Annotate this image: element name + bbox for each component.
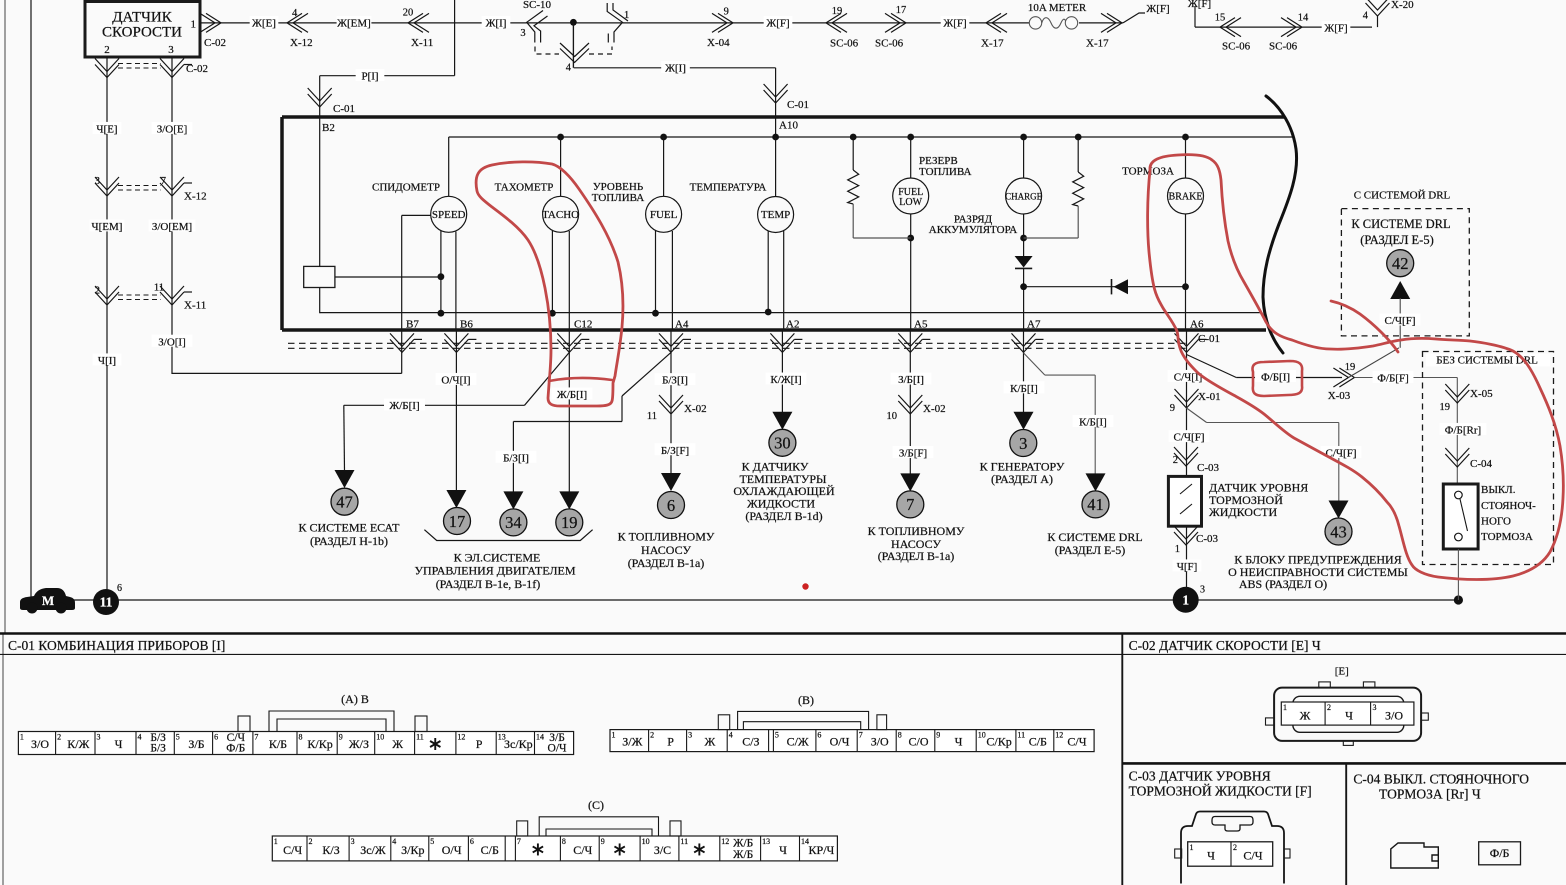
svg-text:НАСОСУ: НАСОСУ	[641, 543, 691, 557]
svg-text:СКОРОСТИ: СКОРОСТИ	[102, 25, 182, 41]
svg-text:Ж[EM]: Ж[EM]	[337, 18, 371, 30]
svg-text:11: 11	[100, 595, 113, 610]
svg-text:К/Б: К/Б	[269, 737, 287, 751]
svg-text:ТОРМОЗНОЙ ЖИДКОСТИ [F]: ТОРМОЗНОЙ ЖИДКОСТИ [F]	[1129, 784, 1312, 799]
svg-text:4: 4	[566, 63, 572, 74]
svg-text:ВЫКЛ.: ВЫКЛ.	[1481, 484, 1516, 496]
svg-text:LOW: LOW	[899, 197, 922, 208]
svg-text:2: 2	[1233, 843, 1237, 852]
svg-text:12: 12	[457, 733, 465, 742]
svg-text:Ж/Б[I]: Ж/Б[I]	[557, 389, 587, 401]
svg-text:11: 11	[154, 282, 164, 293]
svg-text:Ф/Б[I]: Ф/Б[I]	[1261, 372, 1290, 384]
svg-text:C-01: C-01	[333, 103, 355, 115]
svg-text:З/Кр: З/Кр	[401, 843, 424, 857]
svg-text:30: 30	[774, 434, 791, 453]
svg-text:К/Ж: К/Ж	[67, 737, 89, 751]
svg-text:X-11: X-11	[411, 37, 433, 49]
svg-text:19: 19	[1345, 362, 1356, 373]
svg-text:З/О[E]: З/О[E]	[157, 124, 188, 136]
svg-text:О/Ч: О/Ч	[442, 843, 462, 857]
svg-text:10: 10	[978, 731, 986, 740]
svg-text:X-17: X-17	[1086, 37, 1109, 49]
svg-text:Б/З[F]: Б/З[F]	[661, 445, 689, 457]
svg-text:X-17: X-17	[981, 37, 1004, 49]
svg-text:1: 1	[1182, 592, 1189, 607]
svg-text:ABS (РАЗДЕЛ О): ABS (РАЗДЕЛ О)	[1239, 577, 1327, 591]
svg-text:З/О[I]: З/О[I]	[158, 336, 186, 348]
svg-text:17: 17	[896, 5, 907, 16]
svg-text:15: 15	[1215, 12, 1226, 23]
svg-text:14: 14	[536, 733, 544, 742]
svg-text:Б/З[I]: Б/З[I]	[503, 452, 529, 464]
svg-text:SC-10: SC-10	[523, 0, 552, 11]
svg-text:О/Ч: О/Ч	[830, 734, 850, 748]
svg-text:10: 10	[887, 411, 898, 422]
svg-text:1: 1	[191, 19, 197, 31]
svg-text:Б/З[I]: Б/З[I]	[662, 375, 688, 387]
svg-text:Ж[F]: Ж[F]	[1188, 0, 1211, 10]
svg-text:3: 3	[168, 44, 174, 56]
svg-text:С/Б: С/Б	[1029, 734, 1047, 748]
svg-text:Б/З: Б/З	[150, 743, 166, 755]
svg-text:8: 8	[898, 731, 902, 740]
svg-text:6: 6	[214, 733, 218, 742]
svg-text:С/Ч[F]: С/Ч[F]	[1385, 315, 1416, 327]
svg-text:11: 11	[680, 837, 688, 846]
svg-text:С/Ч: С/Ч	[1067, 734, 1086, 748]
svg-text:К/Б[I]: К/Б[I]	[1079, 417, 1107, 429]
svg-text:C-01: C-01	[787, 99, 809, 111]
svg-text:С/Кр: С/Кр	[986, 734, 1011, 748]
svg-text:A10: A10	[779, 119, 798, 131]
svg-text:С/З: С/З	[742, 734, 759, 748]
svg-text:Ч: Ч	[1345, 709, 1353, 723]
svg-text:КР/Ч: КР/Ч	[809, 843, 835, 857]
svg-text:Ч[EM]: Ч[EM]	[92, 221, 123, 233]
svg-text:Зс/Кр: Зс/Кр	[504, 737, 533, 751]
svg-text:9: 9	[936, 731, 940, 740]
svg-text:X-02: X-02	[923, 403, 946, 415]
svg-text:Ж: Ж	[392, 737, 403, 751]
svg-text:FUEL: FUEL	[650, 209, 678, 221]
svg-text:1: 1	[612, 731, 616, 740]
svg-text:Ч[F]: Ч[F]	[1177, 561, 1198, 573]
svg-text:З/О: З/О	[1385, 709, 1403, 723]
svg-text:A7: A7	[1027, 319, 1041, 331]
svg-text:О/Ч: О/Ч	[548, 743, 568, 755]
svg-text:Ч[I]: Ч[I]	[98, 355, 116, 367]
svg-text:8: 8	[562, 837, 566, 846]
svg-text:9: 9	[724, 7, 729, 18]
svg-text:(РАЗДЕЛ E-5): (РАЗДЕЛ E-5)	[1055, 543, 1126, 557]
svg-text:Ф/Б[F]: Ф/Б[F]	[1377, 373, 1409, 385]
svg-text:Р: Р	[476, 737, 483, 751]
svg-text:(B): (B)	[798, 693, 814, 707]
svg-text:2: 2	[57, 733, 61, 742]
svg-text:З/О[EM]: З/О[EM]	[152, 221, 192, 233]
svg-text:Ж: Ж	[1300, 709, 1311, 723]
svg-text:13: 13	[762, 837, 770, 846]
svg-text:3: 3	[97, 733, 101, 742]
svg-text:7: 7	[906, 495, 914, 514]
svg-text:P[I]: P[I]	[361, 71, 378, 83]
svg-text:1: 1	[624, 10, 629, 21]
svg-text:5: 5	[775, 731, 779, 740]
svg-text:(РАЗДЕЛ B-1e, B-1f): (РАЗДЕЛ B-1e, B-1f)	[436, 577, 541, 591]
svg-text:SC-06: SC-06	[1269, 41, 1298, 53]
svg-text:B7: B7	[406, 319, 419, 331]
svg-text:6: 6	[117, 583, 122, 594]
svg-text:TACHO: TACHO	[542, 209, 579, 221]
svg-text:3: 3	[688, 731, 692, 740]
svg-text:1: 1	[1190, 843, 1194, 852]
svg-text:7: 7	[254, 733, 258, 742]
svg-text:Ж[I]: Ж[I]	[486, 18, 507, 30]
svg-text:C-03: C-03	[1197, 462, 1220, 474]
svg-text:1: 1	[1175, 544, 1180, 555]
svg-text:TEMP: TEMP	[761, 209, 790, 221]
svg-text:8: 8	[299, 733, 303, 742]
svg-text:К/З: К/З	[322, 843, 339, 857]
svg-text:АККУМУЛЯТОРА: АККУМУЛЯТОРА	[929, 224, 1018, 236]
svg-text:ТОПЛИВА: ТОПЛИВА	[592, 192, 645, 204]
svg-text:Ж/Б[I]: Ж/Б[I]	[389, 400, 419, 412]
svg-text:К ТОПЛИВНОМУ: К ТОПЛИВНОМУ	[868, 524, 965, 538]
svg-text:Р: Р	[667, 734, 674, 748]
svg-text:47: 47	[336, 493, 353, 512]
svg-text:SPEED: SPEED	[432, 209, 466, 221]
svg-text:A6: A6	[1190, 319, 1204, 331]
svg-text:(РАЗДЕЛ B-1a): (РАЗДЕЛ B-1a)	[628, 556, 705, 570]
svg-text:12: 12	[1055, 731, 1063, 740]
svg-text:C-01: C-01	[1198, 333, 1220, 345]
svg-text:C-02: C-02	[204, 37, 226, 49]
svg-text:Ж[F]: Ж[F]	[766, 18, 789, 30]
svg-text:(C): (C)	[588, 798, 604, 812]
svg-text:C-03 ДАТЧИК УРОВНЯ: C-03 ДАТЧИК УРОВНЯ	[1129, 769, 1271, 784]
svg-text:7: 7	[161, 176, 166, 187]
svg-text:C12: C12	[574, 319, 592, 331]
svg-text:К/Б[I]: К/Б[I]	[1010, 383, 1038, 395]
svg-text:X-11: X-11	[184, 299, 206, 311]
svg-text:ТОРМОЗА: ТОРМОЗА	[1481, 531, 1533, 543]
svg-text:Ж[I]: Ж[I]	[665, 63, 686, 75]
svg-text:(РАЗДЕЛ A): (РАЗДЕЛ A)	[991, 472, 1053, 486]
svg-text:ДАТЧИК: ДАТЧИК	[112, 10, 172, 26]
svg-text:10A METER: 10A METER	[1028, 2, 1087, 14]
svg-text:С/Ч: С/Ч	[283, 843, 302, 857]
svg-text:19: 19	[561, 513, 578, 532]
svg-text:З/Б[F]: З/Б[F]	[899, 448, 927, 460]
svg-text:[E]: [E]	[1335, 666, 1349, 678]
svg-text:13: 13	[498, 733, 506, 742]
svg-text:9: 9	[339, 733, 343, 742]
svg-text:К/Ж[I]: К/Ж[I]	[770, 374, 801, 386]
svg-text:2: 2	[1327, 703, 1331, 712]
svg-text:СТОЯНОЧ-: СТОЯНОЧ-	[1481, 500, 1536, 512]
svg-text:СПИДОМЕТР: СПИДОМЕТР	[372, 182, 440, 194]
svg-text:З/С: З/С	[654, 843, 671, 857]
svg-text:К ТОПЛИВНОМУ: К ТОПЛИВНОМУ	[618, 530, 715, 544]
svg-text:12: 12	[721, 837, 729, 846]
svg-text:2: 2	[650, 731, 654, 740]
svg-text:О/Ч[I]: О/Ч[I]	[441, 375, 470, 387]
svg-text:C-02 ДАТЧИК СКОРОСТИ [E] Ч: C-02 ДАТЧИК СКОРОСТИ [E] Ч	[1129, 638, 1321, 653]
svg-text:К СИСТЕМЕ ЕСАТ: К СИСТЕМЕ ЕСАТ	[298, 521, 400, 535]
svg-text:2: 2	[104, 44, 110, 56]
svg-text:ТОРМОЗА [Rr] Ч: ТОРМОЗА [Rr] Ч	[1379, 787, 1481, 802]
svg-text:С/Ж: С/Ж	[787, 734, 809, 748]
svg-text:7: 7	[517, 837, 521, 846]
svg-text:X-05: X-05	[1470, 388, 1493, 400]
svg-text:4: 4	[138, 733, 142, 742]
svg-text:4: 4	[729, 731, 733, 740]
svg-text:19: 19	[1440, 402, 1451, 413]
svg-text:10: 10	[642, 837, 650, 846]
svg-text:Ж/Б: Ж/Б	[733, 849, 753, 861]
svg-text:SC-06: SC-06	[875, 38, 904, 50]
svg-text:З/Ж: З/Ж	[622, 734, 642, 748]
svg-text:Ф/Б[Rr]: Ф/Б[Rr]	[1445, 425, 1481, 437]
svg-text:B6: B6	[460, 319, 473, 331]
svg-text:CHARGE: CHARGE	[1005, 192, 1043, 202]
svg-text:19: 19	[832, 6, 843, 17]
svg-text:A4: A4	[675, 319, 689, 331]
svg-text:C-04: C-04	[1470, 458, 1493, 470]
svg-text:З/Б[I]: З/Б[I]	[898, 374, 924, 386]
svg-text:Ч: Ч	[955, 734, 963, 748]
svg-text:С/Ч: С/Ч	[573, 843, 592, 857]
svg-text:6: 6	[817, 731, 821, 740]
svg-text:1: 1	[274, 837, 278, 846]
svg-text:(A) B: (A) B	[341, 692, 369, 706]
svg-text:14: 14	[801, 837, 809, 846]
svg-text:Ф/Б: Ф/Б	[226, 743, 245, 755]
svg-text:К СИСТЕМЕ DRL: К СИСТЕМЕ DRL	[1047, 530, 1142, 544]
svg-text:M: M	[42, 593, 54, 608]
svg-text:УПРАВЛЕНИЯ ДВИГАТЕЛЕМ: УПРАВЛЕНИЯ ДВИГАТЕЛЕМ	[414, 564, 575, 578]
svg-text:5: 5	[176, 733, 180, 742]
svg-text:4: 4	[1363, 10, 1369, 21]
svg-text:3: 3	[520, 28, 525, 39]
svg-text:3: 3	[351, 837, 355, 846]
svg-text:C-04 ВЫКЛ. СТОЯНОЧНОГО: C-04 ВЫКЛ. СТОЯНОЧНОГО	[1353, 772, 1529, 787]
svg-text:З/Б: З/Б	[188, 737, 204, 751]
svg-text:Ж[E]: Ж[E]	[252, 18, 276, 30]
svg-text:ТАХОМЕТР: ТАХОМЕТР	[495, 182, 554, 194]
svg-text:Ф/Б: Ф/Б	[1490, 846, 1510, 860]
svg-text:4: 4	[392, 837, 396, 846]
svg-text:SC-06: SC-06	[1222, 41, 1251, 53]
svg-text:43: 43	[1330, 522, 1347, 541]
svg-text:2: 2	[309, 837, 313, 846]
svg-text:X-12: X-12	[290, 37, 313, 49]
svg-text:Ч[E]: Ч[E]	[96, 124, 117, 136]
svg-text:С/Ч[F]: С/Ч[F]	[1174, 432, 1205, 444]
svg-text:4: 4	[292, 8, 298, 19]
svg-text:Ч: Ч	[115, 737, 123, 751]
svg-text:X-01: X-01	[1198, 391, 1221, 403]
svg-text:ТЕМПЕРАТУРА: ТЕМПЕРАТУРА	[690, 182, 767, 194]
svg-text:ТОРМОЗА: ТОРМОЗА	[1122, 166, 1174, 178]
svg-text:42: 42	[1392, 254, 1409, 273]
svg-text:Ж/Б: Ж/Б	[733, 837, 753, 849]
svg-text:B2: B2	[322, 122, 335, 134]
svg-text:Ч: Ч	[1207, 849, 1215, 863]
svg-text:(РАЗДЕЛ H-1b): (РАЗДЕЛ H-1b)	[310, 534, 388, 548]
svg-text:SC-06: SC-06	[830, 38, 859, 50]
svg-text:Ж: Ж	[705, 734, 716, 748]
svg-text:11: 11	[416, 733, 424, 742]
svg-text:20: 20	[403, 8, 414, 19]
svg-text:Ж[F]: Ж[F]	[943, 18, 966, 30]
svg-text:(РАЗДЕЛ E-5): (РАЗДЕЛ E-5)	[1360, 233, 1434, 247]
svg-text:5: 5	[430, 837, 434, 846]
svg-text:С СИСТЕМОЙ DRL: С СИСТЕМОЙ DRL	[1354, 190, 1451, 202]
svg-text:С/Б: С/Б	[481, 843, 499, 857]
svg-text:Зс/Ж: Зс/Ж	[360, 843, 386, 857]
svg-text:Ч: Ч	[779, 843, 787, 857]
svg-text:3: 3	[95, 176, 100, 187]
svg-text:Ж[F]: Ж[F]	[1146, 3, 1169, 15]
svg-text:C-01 КОМБИНАЦИЯ ПРИБОРОВ [I]: C-01 КОМБИНАЦИЯ ПРИБОРОВ [I]	[8, 638, 225, 653]
svg-text:С/О: С/О	[908, 734, 928, 748]
svg-text:2: 2	[1173, 455, 1178, 466]
svg-text:X-12: X-12	[184, 191, 207, 203]
svg-text:3: 3	[1200, 585, 1205, 596]
svg-text:C-02: C-02	[186, 63, 208, 75]
svg-text:(РАЗДЕЛ B-1a): (РАЗДЕЛ B-1a)	[878, 549, 955, 563]
svg-text:X-03: X-03	[1328, 390, 1351, 402]
svg-text:К СИСТЕМЕ DRL: К СИСТЕМЕ DRL	[1351, 217, 1450, 231]
svg-text:ТОПЛИВА: ТОПЛИВА	[919, 166, 972, 178]
svg-text:17: 17	[449, 512, 466, 531]
svg-text:1: 1	[20, 733, 24, 742]
svg-text:С/Ч: С/Ч	[1243, 849, 1262, 863]
svg-text:9: 9	[1170, 403, 1175, 414]
svg-text:C-03: C-03	[1196, 533, 1219, 545]
svg-text:(РАЗДЕЛ B-1d): (РАЗДЕЛ B-1d)	[745, 509, 822, 523]
svg-text:3: 3	[1019, 434, 1027, 453]
svg-text:11: 11	[647, 411, 657, 422]
svg-text:X-20: X-20	[1391, 0, 1414, 11]
svg-text:A5: A5	[914, 319, 928, 331]
svg-text:11: 11	[1017, 731, 1025, 740]
svg-text:К ЭЛ.СИСТЕМЕ: К ЭЛ.СИСТЕМЕ	[454, 551, 541, 565]
svg-text:X-04: X-04	[707, 37, 730, 49]
svg-text:3: 3	[1373, 703, 1377, 712]
svg-text:2: 2	[95, 286, 100, 297]
svg-text:10: 10	[376, 733, 384, 742]
svg-text:BRAKE: BRAKE	[1169, 192, 1203, 203]
svg-text:A2: A2	[786, 319, 799, 331]
svg-text:Ж[F]: Ж[F]	[1324, 23, 1347, 35]
svg-text:ЖИДКОСТИ: ЖИДКОСТИ	[1209, 505, 1277, 519]
svg-text:К/Кр: К/Кр	[307, 737, 332, 751]
svg-text:НОГО: НОГО	[1481, 515, 1511, 527]
svg-text:41: 41	[1087, 495, 1104, 514]
svg-text:З/О: З/О	[871, 734, 889, 748]
svg-text:З/О: З/О	[31, 737, 49, 751]
svg-text:1: 1	[1283, 703, 1287, 712]
svg-text:6: 6	[470, 837, 474, 846]
svg-text:Ж/З: Ж/З	[349, 737, 369, 751]
svg-text:X-02: X-02	[684, 403, 707, 415]
svg-text:34: 34	[505, 513, 522, 532]
svg-text:7: 7	[859, 731, 863, 740]
svg-text:9: 9	[601, 837, 605, 846]
svg-text:14: 14	[1298, 12, 1309, 23]
svg-text:6: 6	[667, 496, 675, 515]
